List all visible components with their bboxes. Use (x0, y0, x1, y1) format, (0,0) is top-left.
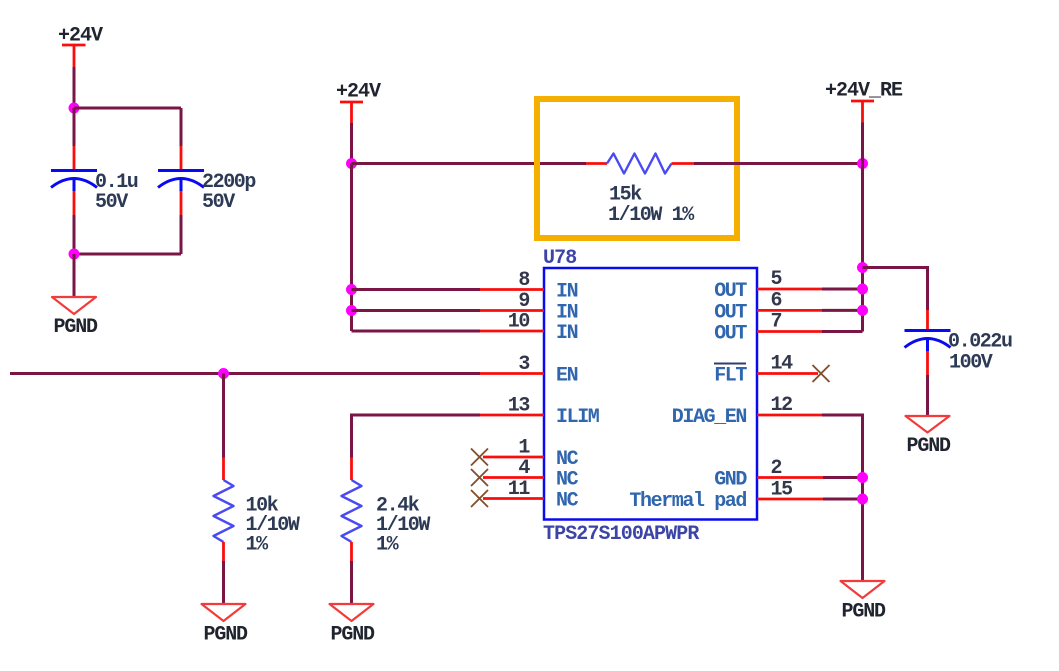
svg-text:11: 11 (508, 478, 531, 501)
pin 1 NC (483, 456, 544, 459)
svg-text:PGND: PGND (907, 435, 952, 458)
node junction 15k right (857, 158, 868, 169)
wire (222, 561, 225, 604)
wire (350, 123, 353, 164)
pin 10 IN (480, 330, 544, 333)
wire (352, 330, 481, 333)
wire (180, 215, 183, 254)
svg-text:Thermal pad: Thermal pad (629, 490, 746, 513)
svg-text:EN: EN (556, 365, 578, 388)
label 2200p 50V (202, 171, 256, 214)
pin 8 IN (480, 288, 544, 291)
svg-text:+24V: +24V (58, 25, 103, 48)
node junction pin2 (857, 472, 868, 483)
node junction caps bottom (69, 249, 80, 260)
wire (926, 375, 929, 416)
highlight box (537, 99, 737, 238)
svg-text:8: 8 (518, 269, 529, 292)
svg-text:10: 10 (508, 311, 530, 334)
capacitor 0.1u 50V (51, 146, 97, 215)
label 15k 1/10W 1% (608, 184, 695, 228)
svg-text:0.022u: 0.022u (948, 331, 1012, 354)
node junction pin5 (857, 284, 868, 295)
label 0.1u 50V (95, 171, 138, 214)
svg-text:1%: 1% (376, 534, 400, 557)
power symbol +24V_RE rail (851, 101, 874, 123)
IC label FLT with overbar (714, 364, 747, 388)
wire (352, 415, 481, 458)
svg-text:GND: GND (714, 469, 747, 492)
pin 13 ILIM (480, 414, 544, 417)
svg-text:OUT: OUT (714, 280, 747, 303)
node junction 15k left (346, 158, 357, 169)
wire (222, 374, 225, 458)
svg-text:12: 12 (771, 394, 793, 417)
svg-text:3: 3 (518, 353, 529, 376)
svg-text:15: 15 (771, 479, 793, 502)
power symbol +24V mid rail (340, 102, 363, 123)
svg-text:50V: 50V (202, 191, 235, 214)
svg-text:PGND: PGND (204, 624, 249, 647)
resistor 2.4k (342, 458, 362, 562)
pin 4 NC (483, 476, 544, 479)
node junction pin8 (346, 284, 357, 295)
label 2.4k 1/10W 1% (376, 495, 430, 557)
pin 12 DIAG_EN (757, 414, 822, 417)
capacitor 2200p 50V (158, 146, 204, 215)
svg-text:ILIM: ILIM (556, 406, 600, 429)
svg-text:+24V: +24V (336, 81, 381, 104)
wire (73, 254, 76, 297)
node junction cap branch (857, 262, 868, 273)
wire (352, 309, 481, 312)
node junction pin6 (857, 305, 868, 316)
label 10k 1/10W 1% (246, 495, 300, 557)
node junction pin9 (346, 305, 357, 316)
svg-text:FLT: FLT (714, 365, 747, 388)
wire (694, 162, 863, 165)
no-connect X pin14 (813, 365, 830, 382)
svg-text:IN: IN (556, 322, 578, 345)
pin 5 OUT (757, 288, 822, 291)
svg-text:NC: NC (556, 490, 579, 513)
svg-text:DIAG_EN: DIAG_EN (672, 406, 747, 429)
IC U78 body (544, 268, 757, 520)
power symbol +24V left rail (62, 45, 86, 67)
svg-text:PGND: PGND (54, 316, 99, 339)
ground PGND 10k (202, 604, 246, 621)
wire (73, 108, 76, 146)
svg-text:NC: NC (556, 469, 579, 492)
svg-text:TPS27S100APWPR: TPS27S100APWPR (543, 523, 699, 546)
wire (861, 123, 864, 332)
svg-text:PGND: PGND (842, 601, 887, 624)
no-connect X pin11 (471, 490, 488, 507)
svg-text:100V: 100V (949, 352, 993, 375)
resistor 10k (214, 458, 234, 562)
wire (74, 107, 181, 110)
wire (352, 288, 481, 291)
svg-text:+24V_RE: +24V_RE (825, 80, 903, 103)
svg-text:5: 5 (771, 268, 782, 291)
svg-text:6: 6 (771, 290, 782, 313)
wire (863, 268, 928, 311)
svg-text:1%: 1% (246, 534, 270, 557)
svg-text:PGND: PGND (331, 624, 376, 647)
wire (822, 415, 863, 581)
svg-text:U78: U78 (543, 247, 576, 270)
pin 3 EN (480, 372, 544, 375)
svg-text:13: 13 (508, 395, 530, 418)
no-connect X pin1 (471, 449, 488, 466)
wire EN net (10, 372, 480, 375)
wire (73, 215, 76, 254)
wire (822, 330, 863, 333)
wire (350, 561, 353, 604)
ground PGND ic bottom (841, 581, 885, 598)
wire (822, 309, 863, 312)
pin 2 GND (757, 476, 823, 479)
ground PGND left (52, 297, 96, 314)
svg-text:2: 2 (771, 457, 782, 480)
svg-text:IN: IN (556, 281, 578, 304)
node junction caps top (69, 103, 80, 114)
wire (74, 253, 181, 256)
svg-text:50V: 50V (95, 191, 128, 214)
pin 9 IN (480, 309, 544, 312)
wire (350, 164, 353, 332)
capacitor 0.022u 100V (905, 310, 951, 375)
wire (823, 498, 863, 501)
pin 15 Thermal pad (757, 498, 823, 501)
no-connect X pin4 (471, 469, 488, 486)
pin 11 NC (483, 497, 544, 500)
node junction pin15 (857, 494, 868, 505)
pin 7 OUT (757, 330, 822, 333)
label 0.022u 100V (948, 331, 1012, 375)
svg-text:OUT: OUT (714, 301, 747, 324)
svg-text:OUT: OUT (714, 323, 747, 346)
wire (823, 476, 863, 479)
svg-text:7: 7 (771, 311, 782, 334)
svg-text:4: 4 (518, 457, 530, 480)
svg-text:1/10W 1%: 1/10W 1% (608, 204, 695, 227)
pin 6 OUT (757, 309, 822, 312)
wire (73, 67, 76, 108)
wire (822, 288, 863, 291)
pin 14 FLT (757, 372, 818, 375)
wire (352, 162, 587, 165)
wire (180, 108, 183, 146)
svg-text:14: 14 (771, 353, 794, 376)
ground PGND cap right (906, 416, 950, 433)
resistor 15k (586, 154, 694, 174)
ground PGND 2.4k (330, 604, 374, 621)
node junction 10k top (218, 368, 229, 379)
